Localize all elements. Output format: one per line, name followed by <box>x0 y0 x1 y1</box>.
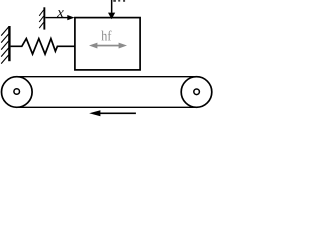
belt top line <box>17 76 197 78</box>
displacement reference mark <box>39 7 45 29</box>
label x <box>57 10 64 17</box>
label hf <box>101 31 111 41</box>
mass box <box>75 18 140 70</box>
spring <box>11 39 75 55</box>
force arrow <box>108 0 115 19</box>
left roller axle <box>14 89 20 95</box>
belt motion arrow <box>89 110 136 116</box>
belt bottom line <box>17 106 197 108</box>
wall <box>1 26 10 64</box>
right roller axle <box>194 89 200 95</box>
friction double arrow <box>89 43 127 49</box>
left roller <box>1 77 32 108</box>
displacement arrow <box>45 15 74 20</box>
right roller <box>181 77 212 108</box>
cut-off label marks <box>113 0 125 2</box>
